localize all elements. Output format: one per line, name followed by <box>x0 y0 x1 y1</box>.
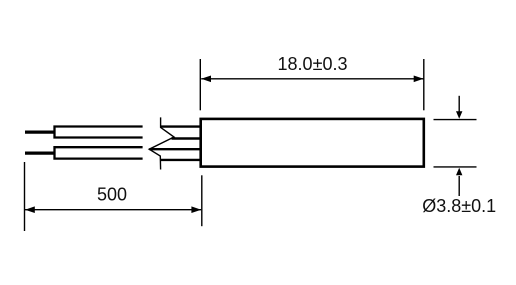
svg-text:500: 500 <box>97 184 127 204</box>
svg-text:Ø3.8±0.1: Ø3.8±0.1 <box>422 196 496 216</box>
svg-text:18.0±0.3: 18.0±0.3 <box>278 54 348 74</box>
